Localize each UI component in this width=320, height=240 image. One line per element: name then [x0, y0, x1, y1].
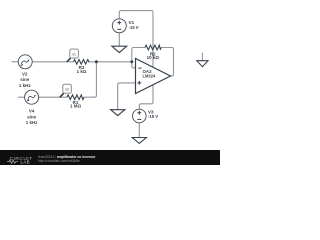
- wire R1 up to node A: [84, 62, 96, 97]
- wire V4 right to R1: [39, 96, 67, 98]
- svg-text:v1: v1: [72, 53, 76, 57]
- watermark bar: [0, 150, 220, 165]
- svg-text:LAB: LAB: [21, 160, 31, 165]
- svg-text:-15 V: -15 V: [129, 25, 139, 30]
- svg-text:10 kΩ: 10 kΩ: [147, 55, 160, 60]
- wire R2 right down to op-amp output: [161, 48, 174, 77]
- isolated ground: [197, 61, 208, 67]
- wire V2 left stub: [12, 61, 19, 63]
- CircuitLab logo: [7, 156, 33, 165]
- wire op-amp non-inverting pin to ground: [118, 83, 136, 110]
- svg-text:1 kHz: 1 kHz: [19, 83, 32, 88]
- svg-text:1 kHz: 1 kHz: [26, 120, 39, 125]
- wire V4 left stub: [18, 96, 25, 98]
- node B junction dot: [130, 60, 133, 63]
- svg-text:sine: sine: [27, 114, 37, 119]
- wire R3 to inverting node: [90, 61, 132, 63]
- wire V1 plus terminal to op-amp V+ pin: [119, 11, 153, 68]
- svg-text:http://circuitlab.com/ce63k8e: http://circuitlab.com/ce63k8e: [38, 159, 80, 163]
- svg-text:1 kΩ: 1 kΩ: [77, 69, 87, 74]
- svg-text:V2: V2: [22, 71, 28, 76]
- resistor R1: [67, 95, 84, 100]
- wire V3 minus terminal to ground: [138, 123, 140, 138]
- resistor R2: [145, 45, 161, 50]
- wire stub of isolated ground: [201, 53, 203, 61]
- svg-text:1 MΩ: 1 MΩ: [70, 104, 82, 109]
- source V2: [18, 55, 32, 69]
- wire op-amp V- pin to V3 plus terminal: [139, 85, 153, 110]
- svg-text:V4: V4: [29, 109, 35, 114]
- flag v1 node label: [67, 49, 79, 62]
- svg-text:v2: v2: [65, 88, 69, 92]
- ground below V3: [132, 138, 146, 144]
- source V3: [133, 109, 147, 123]
- op-amp OA2 LM324: [136, 59, 171, 94]
- flag v2 node label: [60, 84, 72, 97]
- source V1: [112, 19, 126, 33]
- resistor R3: [74, 60, 90, 65]
- wire V2 right to R3: [32, 61, 73, 63]
- node A junction dot: [95, 60, 98, 63]
- svg-text:sine: sine: [20, 77, 30, 82]
- wire node B up to R2 feedback: [132, 48, 145, 62]
- source V4: [25, 90, 39, 104]
- ground at non-inverting input: [111, 110, 125, 116]
- wire node B to op-amp inverting pin: [132, 62, 136, 68]
- ground below V1: [112, 46, 127, 52]
- wire V1 minus terminal to ground: [118, 33, 120, 46]
- svg-text:-15 V: -15 V: [148, 114, 158, 119]
- svg-text:LM324: LM324: [143, 74, 156, 79]
